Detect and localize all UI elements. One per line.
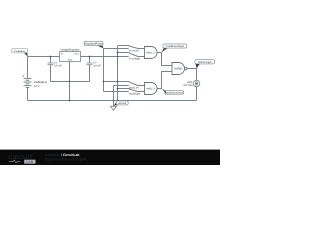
wire AND_3 output xyxy=(157,88,161,90)
ground rail V3 xyxy=(113,86,115,101)
wire sw1 common to AND_2 xyxy=(138,48,145,50)
net flag Headlights xyxy=(195,60,215,69)
regulator GND lead xyxy=(69,62,71,82)
net flag BackDoors xyxy=(162,89,184,95)
AND gate AND_2 xyxy=(145,47,158,59)
svg-text:100 nF: 100 nF xyxy=(93,64,101,67)
switch SW2 FrontRight xyxy=(128,53,140,61)
ground bus wire xyxy=(28,100,197,102)
ground symbol xyxy=(110,101,116,111)
svg-text:100 nF: 100 nF xyxy=(54,64,62,67)
cap bottom rail xyxy=(51,81,90,83)
svg-text:ciaranfran / CircuitLab: ciaranfran / CircuitLab xyxy=(45,153,80,157)
svg-text:VoltageRegulator: VoltageRegulator xyxy=(60,49,79,52)
junction GND rail xyxy=(69,81,71,83)
net flag Ground xyxy=(114,101,129,106)
switch SW1 FrontLeft xyxy=(128,46,139,53)
svg-text:FrontDoorsOpen: FrontDoorsOpen xyxy=(166,45,185,48)
node rail V2 xyxy=(117,46,119,101)
svg-text:12 V: 12 V xyxy=(34,84,40,88)
junction C1 top xyxy=(50,56,52,58)
svg-text:FrontRight: FrontRight xyxy=(129,58,140,61)
wire sw4 bottom feed xyxy=(104,91,129,93)
wire sw4 top feed xyxy=(118,88,130,90)
wire lamp bottom to ground bus xyxy=(196,87,198,101)
svg-text:100 mΩ: 100 mΩ xyxy=(183,84,192,87)
wire regulator OUT to sw2 bottom xyxy=(81,56,129,58)
svg-text:Ground: Ground xyxy=(118,102,127,105)
net flag RegulatedPower xyxy=(84,41,104,48)
svg-text:FrontLeft: FrontLeft xyxy=(129,50,139,53)
wire sw4 common to AND_3 xyxy=(138,91,145,93)
CircuitLab logo xyxy=(8,155,35,164)
svg-text:CarBattery: CarBattery xyxy=(14,50,26,53)
wire sw1 bottom feed xyxy=(104,48,129,50)
wire BackDoors to NAND in2 xyxy=(162,72,173,89)
svg-text:GND: GND xyxy=(68,59,73,62)
wire NAND output down to lamp xyxy=(196,69,198,81)
capacitor C1 xyxy=(48,57,63,82)
wire sw1 top feed xyxy=(118,45,130,47)
wire battery vertical xyxy=(27,57,29,79)
svg-text:LAB: LAB xyxy=(26,160,34,164)
wire sw2 common to AND_2 xyxy=(138,56,145,58)
wire sw3 bottom feed xyxy=(114,85,129,87)
wire battery top to regulator IN xyxy=(28,56,60,58)
wire FrontDoors to NAND in1 xyxy=(162,53,173,66)
svg-text:BackRight: BackRight xyxy=(129,93,140,96)
battery V1 CarBattery 12V xyxy=(22,75,31,87)
svg-text:AND_3: AND_3 xyxy=(146,88,155,91)
svg-text:OUT: OUT xyxy=(75,52,80,55)
wire sw3 common to AND_3 xyxy=(138,85,145,87)
svg-text:AND_2: AND_2 xyxy=(146,52,155,55)
GND rail to ground bus xyxy=(69,82,71,101)
footer bar xyxy=(0,150,220,165)
net flag CarBattery xyxy=(12,49,28,57)
NAND gate U2 xyxy=(172,63,187,75)
node rail V1 xyxy=(103,49,105,92)
svg-text:RegulatedPower: RegulatedPower xyxy=(84,43,103,46)
svg-text:NAND: NAND xyxy=(174,68,182,71)
capacitor C2 xyxy=(87,57,102,82)
wire battery bottom xyxy=(27,87,29,100)
wire AND_2 output xyxy=(157,52,161,54)
wire sw3 top feed xyxy=(104,81,130,83)
switch SW4 BackRight xyxy=(128,89,140,96)
svg-text:BackLeft: BackLeft xyxy=(129,86,139,89)
svg-text:BackDoorsOpen: BackDoorsOpen xyxy=(165,92,184,95)
wire sw2 top feed xyxy=(118,52,130,54)
AND gate AND_3 xyxy=(145,83,158,95)
wire NAND output xyxy=(187,68,196,70)
net flag FrontDoors xyxy=(162,44,187,53)
voltage regulator U1 xyxy=(60,49,81,62)
footer text xyxy=(45,153,87,162)
switch SW3 BackLeft xyxy=(128,82,139,90)
svg-text:http://circuitlab.com/ceqj24o: http://circuitlab.com/ceqj24o xyxy=(45,158,87,162)
lamp Light 100 mOhm xyxy=(183,80,200,87)
ground junction xyxy=(113,100,115,102)
svg-text:InteriorLight: InteriorLight xyxy=(198,61,212,64)
